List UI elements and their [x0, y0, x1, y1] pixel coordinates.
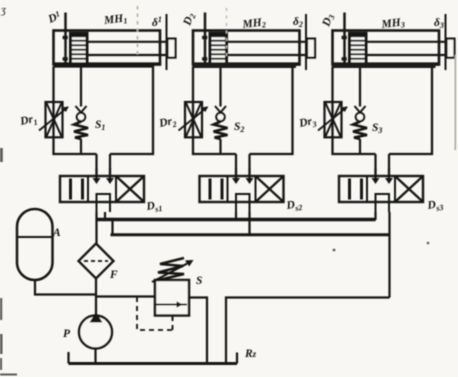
svg-text:A: A	[52, 227, 61, 239]
svg-text:P: P	[63, 328, 71, 340]
svg-text:S: S	[196, 275, 202, 287]
svg-text:F: F	[109, 269, 118, 281]
svg-text:Rz: Rz	[244, 348, 257, 360]
svg-text:ʒ: ʒ	[0, 4, 6, 16]
